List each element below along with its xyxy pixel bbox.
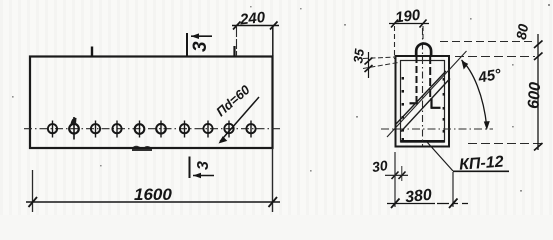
hole circle 3 <box>91 121 100 138</box>
dimension 35: oblique tick lower <box>365 65 373 72</box>
svg-text:КП-12: КП-12 <box>459 154 505 174</box>
svg-text:190: 190 <box>394 7 422 27</box>
svg-text:30: 30 <box>371 157 389 175</box>
hole circle 7 <box>180 121 189 138</box>
svg-text:35: 35 <box>350 47 367 64</box>
section horizontal centerline (dash-dot) <box>381 128 493 130</box>
hole circle 10 <box>246 121 255 138</box>
dimension 380: dimension line <box>387 203 468 205</box>
section block inner bottom thick line <box>401 140 445 143</box>
svg-text:600: 600 <box>525 81 544 109</box>
dimension 1600: oblique tick left <box>29 197 38 207</box>
section mark 3 bottom: arrow <box>193 173 214 179</box>
section mark 3 top: cut line <box>186 33 188 56</box>
dimension 600: oblique tick bottom <box>534 143 543 151</box>
dimension 35: extension upper <box>363 57 396 59</box>
hole leader line with arrow <box>219 97 260 144</box>
lifting loop arch <box>416 44 431 57</box>
hole circle 8 <box>203 121 212 138</box>
dimension 190: extension right (dashed) <box>422 26 424 43</box>
rebar dots left face <box>402 77 404 140</box>
dimension 1600: extension line left <box>32 170 34 212</box>
section mark 3 bottom: cut line <box>189 157 191 179</box>
dimension 80/600: extension dashes at block bottom level <box>468 143 542 145</box>
dimension 380: oblique tick left <box>391 199 400 209</box>
svg-text:1600: 1600 <box>134 185 172 204</box>
beam centerline (hole axis, dash-dot) <box>24 128 281 130</box>
svg-text:3: 3 <box>195 161 212 170</box>
beam outline (elevation view) <box>30 57 273 149</box>
hole circle 9 <box>224 121 233 138</box>
mark leader diagonal <box>427 142 453 171</box>
dimension 30: inner-wall extension <box>401 166 403 181</box>
ink blob on beam bottom edge <box>132 146 152 151</box>
lifting loop right leg <box>429 56 431 98</box>
dimension 240: extension line right (beam edge extended) <box>272 27 274 56</box>
section mark 3 top: arrow <box>191 33 212 39</box>
dimension 80/600: extension dashes at block top level <box>455 56 535 58</box>
dimension 240: oblique tick left <box>233 22 241 30</box>
dimension 380: extension line right <box>452 172 454 207</box>
lifting loop right leg lower part <box>430 98 432 108</box>
dimension 1600: oblique tick right <box>269 197 278 207</box>
lifting loop left leg (hidden, dashed) <box>416 56 418 103</box>
section vertical centerline (dash) <box>422 28 424 146</box>
hole circle 1 <box>48 121 57 138</box>
45 degree arc <box>462 60 487 127</box>
dimension 35: oblique tick upper <box>365 58 373 65</box>
45 arc arrowhead top <box>462 61 469 70</box>
dimension 80: oblique tick top <box>534 41 543 49</box>
dimension 35: extension lower <box>363 62 401 69</box>
rebar dots right face <box>443 78 445 133</box>
dimension 80/600: oblique tick middle <box>534 53 543 61</box>
lifting loop tick left on beam top <box>91 47 93 58</box>
inclined hole wall upper (45 deg) <box>396 71 446 124</box>
dimension 80/600: extension dashes at loop top level <box>440 41 535 43</box>
svg-text:380: 380 <box>404 187 432 207</box>
dimension 240: extension line left <box>236 27 238 56</box>
dimension 190: oblique tick left <box>391 20 398 28</box>
mark shelf line <box>453 170 509 172</box>
dimension 240: dimension line <box>232 25 279 27</box>
svg-text:80: 80 <box>513 22 531 40</box>
dimension 30: dimension line <box>385 174 408 176</box>
svg-text:Пd=60: Пd=60 <box>213 82 253 120</box>
45 arc arrowhead bottom <box>484 121 490 130</box>
svg-text:240: 240 <box>238 9 266 29</box>
dimension 80/600: vertical dimension line <box>537 34 539 150</box>
svg-text:45°: 45° <box>476 66 503 87</box>
dimension 1600: dimension line <box>26 201 280 203</box>
inclined hole wall lower (45 deg) <box>401 79 450 132</box>
hole circle 2 (with ink blob) <box>69 117 79 140</box>
inclined hole axis extended <box>387 51 467 137</box>
dimension 30: oblique tick left <box>392 172 399 180</box>
svg-text:3: 3 <box>190 41 211 52</box>
dimension 240: oblique tick right <box>270 22 278 30</box>
lifting loop right foot <box>431 107 441 109</box>
dimension 35: dimension line <box>368 52 370 78</box>
lifting loop left foot <box>410 102 419 104</box>
section block outer outline (view 3-3) <box>396 56 450 147</box>
dimension 1600: extension line right <box>272 148 274 212</box>
scan noise specks <box>12 4 550 192</box>
dimension 380: oblique tick right <box>449 199 458 209</box>
section block inner liner outline <box>401 61 445 143</box>
dimension 30: oblique tick right <box>399 172 406 180</box>
hole circle 6 <box>156 121 166 138</box>
hole circle 4 <box>112 121 121 138</box>
dimension 380: extension line left (block edge extended) <box>394 152 396 207</box>
dimension 190: oblique tick right <box>420 20 427 28</box>
hole circle 5 <box>135 121 145 138</box>
dimension 190: extension left (dashed) <box>394 26 396 59</box>
dimension 190: dimension line <box>389 23 429 25</box>
lifting loop tick right on beam top <box>233 46 235 57</box>
